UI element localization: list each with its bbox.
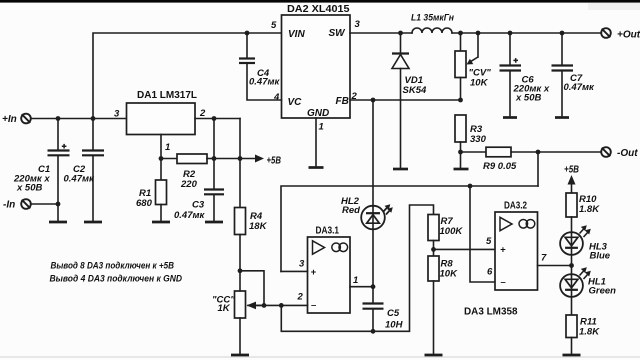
svg-text:6: 6 [487,267,493,278]
wire pin 3 input [281,270,308,272]
ground C2 [84,221,102,224]
ground VD1 [393,168,408,171]
junction C1 / +In [56,116,61,121]
svg-text:3: 3 [355,19,361,30]
resistor R10 1.8K [566,193,600,233]
junction R2 / +5B node [212,156,217,161]
wire sense line y186 [281,186,538,271]
svg-text:1: 1 [353,275,358,286]
svg-text:–: – [501,277,507,288]
ground DA2 [309,166,324,169]
svg-text:C3: C3 [192,200,205,211]
svg-text:SW: SW [329,28,347,39]
svg-text:C5: C5 [387,308,400,319]
wire DA1 pin 2 output [195,118,240,120]
ground R8 [425,354,443,357]
svg-text:0.47мк: 0.47мк [64,174,96,185]
wire pin 7 output [538,265,572,267]
wire FB line [350,99,461,101]
svg-text:SK54: SK54 [403,85,427,96]
ground R1 [152,221,170,224]
svg-text:2: 2 [199,108,206,119]
svg-text:Red: Red [342,205,360,216]
LED HL3 Blue [560,225,611,265]
wire pin 5 input [434,248,496,250]
wire DA1 pin 1 adj [160,135,162,181]
svg-text:-In: -In [3,200,15,211]
svg-text:330: 330 [470,134,487,145]
svg-text:3: 3 [114,109,120,120]
resistor R3 330 [455,115,487,168]
resistor R11 1.8K [566,315,600,354]
svg-text:1: 1 [319,122,324,133]
junction adj node [159,156,164,161]
terminal +Out [601,28,640,40]
junction R7-R8 / pin 5 [431,247,436,252]
wire wiper loop [240,271,264,306]
junction riser / +In [91,116,96,121]
ground C1 [49,221,67,224]
junction R3 / R9 [458,150,463,155]
potentiometer "CC" 1K [212,291,264,354]
svg-text:Вывод 8 DA3 подключен к +5В: Вывод 8 DA3 подключен к +5В [51,261,175,272]
capacitor C1 220мк x 50В [13,119,70,222]
junction HL2 / FB [371,98,376,103]
svg-text:1.8K: 1.8K [579,327,600,338]
LED HL1 Green [560,266,616,316]
svg-text:DA3.2: DA3.2 [504,200,527,211]
junction R4 riser / +5B wire [238,156,243,161]
svg-text:0.47мк: 0.47мк [564,82,596,93]
wire C3 riser [213,119,215,190]
ground C7 [555,116,569,119]
resistor R2 220 [161,154,214,190]
svg-text:-Out: -Out [617,148,638,159]
junction C7 / rail [560,31,565,36]
svg-text:DA3 LM358: DA3 LM358 [464,307,518,318]
wire pin 2 input [248,304,308,306]
terminal +In [2,114,31,125]
svg-text:220: 220 [180,179,198,190]
wire +In rail to DA1 pin 3 [31,118,127,120]
ground R3 [454,168,469,171]
LED HL2 Red [341,196,393,287]
svg-text:DA1 LM317L: DA1 LM317L [137,90,197,101]
capacitor C2 0.47мк [64,119,105,222]
inductor L1 35мкГн [411,13,454,34]
ground CC [231,354,249,357]
svg-text:Вывод 4 DA3 подключен к GND: Вывод 4 DA3 подключен к GND [50,274,183,285]
svg-text:+5В: +5В [267,156,282,167]
svg-text:VC: VC [288,97,303,108]
svg-text:+5В: +5В [564,165,579,176]
junction CV wiper / SW rail [476,31,481,36]
junction C6 / rail [508,31,513,36]
svg-text:VIN: VIN [288,29,305,40]
junction C4 / VIN rail [245,31,250,36]
capacitor C6 220мк x 50В [500,33,550,117]
capacitor C5 10H [363,287,404,332]
svg-text:3: 3 [299,259,305,270]
svg-text:x 50В: x 50В [515,93,541,104]
wire SW rail [350,32,601,34]
svg-text:0.47мк: 0.47мк [174,210,206,221]
junction pin6 riser / sense line [468,184,473,189]
op-amp DA3.1 [297,226,359,314]
wire feedback loop to R7 [281,205,433,331]
svg-text:10K: 10K [440,269,459,280]
svg-text:10H: 10H [385,320,404,331]
junction C3 riser / output [212,116,217,121]
svg-text:DA2 XL4015: DA2 XL4015 [287,4,350,15]
resistor R1 680 [136,180,167,221]
wire -In to C1 leg [31,203,58,205]
svg-text:4: 4 [273,92,280,103]
svg-text:680: 680 [136,198,153,209]
terminal -Out [601,147,638,159]
junction feedback branch / pin2 [279,303,284,308]
junction CV-R3 / FB [458,98,463,103]
junction R4 / CC wiper loop [238,268,243,273]
svg-text:x 50В: x 50В [16,183,42,194]
svg-text:1.8K: 1.8K [579,204,600,215]
junction sense riser / -Out line [536,150,541,155]
svg-text:+: + [500,245,506,256]
wire pin 1 output [350,286,373,288]
wire -Out sense riser [537,152,539,186]
op-amp DA3.2 [486,200,547,290]
svg-text:100K: 100K [440,226,464,237]
wire +5B branch [214,158,259,160]
wire output corner down to R4 [239,119,241,208]
ground C3 [205,221,223,224]
diode VD1 SK54 [392,33,427,168]
potentiometer "CV" 10K [455,33,491,100]
svg-text:18K: 18K [249,221,268,232]
ground R11 [563,354,581,357]
terminal -In [3,199,31,210]
svg-text:1: 1 [165,142,170,153]
svg-text:0.47мк: 0.47мк [249,77,281,88]
wire riser from +In line up to VIN rail [93,33,282,119]
svg-text:–: – [311,300,317,311]
resistor R7 100K [428,215,463,257]
capacitor C3 0.47мк [174,190,224,222]
junction -In / C1 [56,202,61,207]
svg-text:1K: 1K [218,303,231,314]
junction C5 / feedback loop [371,329,376,334]
svg-text:7: 7 [541,253,547,264]
ground C6 [503,116,517,119]
svg-text:+In: +In [2,114,17,125]
resistor R8 10K [428,256,458,354]
junction pin7 / LED chain [569,263,574,268]
svg-text:+: + [311,267,317,278]
wire pin 6 riser [470,186,495,282]
svg-text:DA3.1: DA3.1 [316,226,340,237]
capacitor C4 0.47мк [239,33,282,100]
wire DA2 GND pin 1 [315,118,317,167]
svg-text:5: 5 [486,236,492,247]
svg-text:2: 2 [297,292,304,303]
svg-text:L1 35мкГн: L1 35мкГн [411,13,454,24]
wire HL2 leg from FB [372,100,374,207]
svg-text:5: 5 [271,20,277,31]
converter DA2 XL4015 [271,4,361,132]
svg-text:R9 0.05: R9 0.05 [483,161,517,172]
regulator DA1 LM317L [114,90,206,153]
node +5B arrow [255,155,281,167]
svg-text:10K: 10K [470,78,489,89]
svg-text:Green: Green [589,286,617,297]
svg-text:Blue: Blue [590,251,611,262]
svg-text:+Out: +Out [617,30,640,41]
capacitor C7 0.47мк [552,33,596,117]
junction wiper / pin2 wire [262,303,267,308]
node +5B supply arrow [564,165,579,194]
resistor R4 18K [235,208,268,292]
svg-text:GND: GND [307,108,329,119]
resistor R9 0.05 [461,147,602,172]
junction VD1 / SW rail [398,31,403,36]
svg-text:FB: FB [336,96,349,107]
junction pin1 / HL2 leg [371,284,376,289]
junction CV top / SW rail [458,31,463,36]
